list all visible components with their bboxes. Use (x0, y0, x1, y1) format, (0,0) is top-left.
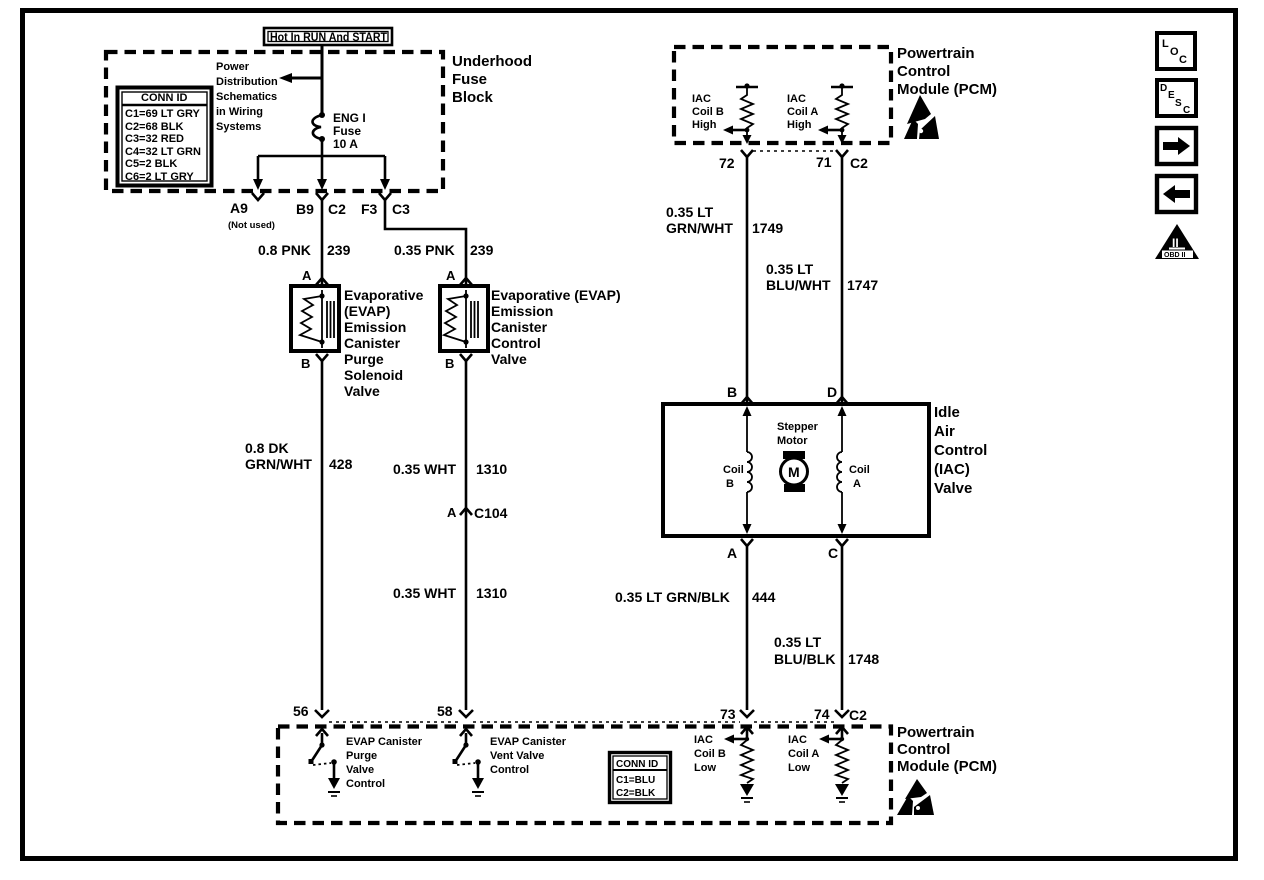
svg-text:F3: F3 (361, 201, 378, 217)
svg-text:Schematics: Schematics (216, 91, 277, 103)
svg-text:B: B (445, 356, 454, 371)
svg-text:Module (PCM): Module (PCM) (897, 81, 997, 98)
wire C3 to control valve pin A (385, 200, 466, 284)
svg-text:A: A (727, 545, 737, 561)
svg-text:B: B (301, 356, 310, 371)
svg-text:0.35 LT: 0.35 LT (766, 261, 814, 277)
svg-text:C3=32 RED: C3=32 RED (125, 133, 184, 145)
driver IAC Coil A Low (pin 74) (788, 727, 849, 802)
svg-text:Powertrain: Powertrain (897, 724, 975, 741)
svg-text:C104: C104 (474, 505, 508, 521)
svg-text:Idle: Idle (934, 404, 960, 421)
svg-text:239: 239 (470, 242, 494, 258)
svg-text:Evaporative (EVAP): Evaporative (EVAP) (491, 287, 621, 303)
icon LOC (1157, 33, 1195, 69)
svg-text:C: C (1179, 54, 1187, 66)
wire label 0.8 DK GRN/WHT 428 (245, 440, 353, 472)
CONN ID table (fuse block) (118, 88, 212, 186)
icon forward arrow (1157, 128, 1196, 164)
svg-text:ENG I: ENG I (333, 111, 366, 125)
svg-text:High: High (692, 119, 717, 131)
svg-text:O: O (1170, 46, 1179, 58)
svg-text:IAC: IAC (692, 93, 711, 105)
pin A purge arrow (302, 268, 328, 285)
wire IAC C to PCM 74 (841, 546, 844, 710)
svg-text:Coil B: Coil B (692, 106, 724, 118)
svg-text:C6=2 LT GRY: C6=2 LT GRY (125, 171, 194, 183)
svg-text:CONN ID: CONN ID (616, 759, 658, 770)
svg-text:GRN/WHT: GRN/WHT (666, 220, 733, 236)
ESD symbol top (904, 95, 939, 139)
svg-text:Control: Control (346, 778, 385, 790)
feed bus wire (258, 155, 385, 158)
svg-text:BLU/BLK: BLU/BLK (774, 651, 835, 667)
svg-text:M: M (788, 464, 800, 480)
connector 58 (437, 703, 473, 719)
svg-text:(IAC): (IAC) (934, 461, 970, 478)
connector B9 C2 (296, 193, 346, 217)
svg-text:C: C (1183, 105, 1190, 116)
svg-text:Power: Power (216, 61, 250, 73)
driver IAC Coil B High (692, 83, 758, 144)
svg-text:10 A: 10 A (333, 137, 358, 151)
svg-text:Motor: Motor (777, 435, 808, 447)
svg-text:C1=69 LT GRY: C1=69 LT GRY (125, 108, 201, 120)
svg-text:Canister: Canister (491, 319, 548, 335)
svg-text:A: A (853, 478, 861, 490)
connector C1/C2 dotted link bottom (329, 721, 835, 723)
svg-text:C5=2 BLK: C5=2 BLK (125, 158, 177, 170)
svg-text:0.35 WHT: 0.35 WHT (393, 461, 456, 477)
svg-text:GRN/WHT: GRN/WHT (245, 456, 312, 472)
svg-text:L: L (1162, 38, 1169, 50)
pin A IAC connector (727, 539, 753, 561)
svg-text:Purge: Purge (344, 351, 384, 367)
icon OBD II triangle (1155, 224, 1199, 259)
svg-text:B9: B9 (296, 201, 314, 217)
wire label 0.35 PNK 239 (394, 242, 494, 258)
svg-text:1749: 1749 (752, 220, 783, 236)
svg-text:Coil A: Coil A (787, 106, 818, 118)
driver IAC Coil B Low (pin 73) (694, 727, 754, 802)
svg-text:0.8 DK: 0.8 DK (245, 440, 289, 456)
svg-text:CONN ID: CONN ID (141, 92, 188, 104)
svg-text:Valve: Valve (934, 480, 972, 497)
coil A wire with up/down arrows (837, 406, 870, 534)
svg-text:Purge: Purge (346, 750, 377, 762)
svg-text:Valve: Valve (344, 383, 380, 399)
connector A C104 (447, 505, 508, 521)
pin C IAC connector (828, 539, 848, 561)
svg-text:BLU/WHT: BLU/WHT (766, 277, 831, 293)
svg-text:Powertrain: Powertrain (897, 45, 975, 62)
svg-text:Evaporative: Evaporative (344, 287, 424, 303)
svg-text:444: 444 (752, 589, 776, 605)
wire label 0.35 WHT 1310 upper (393, 461, 507, 477)
svg-text:Hot In RUN And START: Hot In RUN And START (270, 30, 388, 44)
IAC valve box (663, 404, 987, 536)
connector 71 C2 (816, 150, 868, 171)
svg-text:OBD II: OBD II (1164, 252, 1185, 259)
wire from Hot label to fuse (321, 45, 324, 114)
power distribution reference arrow (216, 61, 322, 133)
node Hot In RUN And START (264, 28, 392, 45)
svg-text:Underhood: Underhood (452, 53, 532, 70)
svg-text:E: E (1168, 90, 1175, 101)
wire IAC A to PCM 73 (746, 546, 749, 710)
svg-text:A9: A9 (230, 200, 248, 216)
wire drop F3 (380, 156, 390, 190)
svg-text:58: 58 (437, 703, 453, 719)
coil B wire with up/down arrows (723, 406, 752, 534)
svg-text:Coil A: Coil A (788, 748, 819, 760)
svg-text:Distribution: Distribution (216, 76, 278, 88)
svg-text:0.8 PNK: 0.8 PNK (258, 242, 311, 258)
svg-text:1310: 1310 (476, 461, 507, 477)
svg-text:Low: Low (694, 762, 716, 774)
svg-text:(EVAP): (EVAP) (344, 303, 390, 319)
svg-text:72: 72 (719, 155, 735, 171)
svg-text:Emission: Emission (344, 319, 406, 335)
svg-text:73: 73 (720, 706, 736, 722)
pin B control connector (445, 354, 472, 371)
underhood fuse block box (106, 52, 532, 191)
wire label 0.35 LT BLU/WHT 1747 (766, 261, 878, 293)
svg-text:Control: Control (897, 741, 950, 758)
svg-text:56: 56 (293, 703, 309, 719)
wire label 0.35 LT GRN/WHT 1749 (666, 204, 783, 236)
driver switch EVAP purge (pin 56) (309, 729, 423, 796)
svg-text:C3: C3 (392, 201, 410, 217)
svg-text:0.35 LT GRN/BLK: 0.35 LT GRN/BLK (615, 589, 730, 605)
connector 74 C2 (814, 706, 867, 723)
wire label 0.35 LT GRN/BLK 444 (615, 589, 776, 605)
PCM bottom box (278, 724, 997, 823)
svg-text:A: A (302, 268, 312, 283)
svg-text:EVAP Canister: EVAP Canister (346, 736, 423, 748)
wire label 0.35 LT BLU/BLK 1748 (774, 634, 879, 667)
wire fuse to feed bus (321, 139, 324, 156)
svg-text:C4=32 LT GRN: C4=32 LT GRN (125, 146, 201, 158)
ESD symbol bottom (897, 779, 934, 815)
connector 56 (293, 703, 329, 719)
svg-text:239: 239 (327, 242, 351, 258)
pin D IAC arrow (827, 384, 848, 404)
svg-text:Low: Low (788, 762, 810, 774)
wire control B to C104 (465, 361, 468, 515)
wire drop A9 (253, 156, 263, 190)
pin B IAC arrow (727, 384, 753, 404)
svg-text:Control: Control (491, 335, 541, 351)
svg-text:Canister: Canister (344, 335, 401, 351)
svg-text:C2=68 BLK: C2=68 BLK (125, 121, 183, 133)
CONN ID table (PCM) (610, 753, 671, 803)
svg-text:IAC: IAC (787, 93, 806, 105)
svg-text:Module (PCM): Module (PCM) (897, 758, 997, 775)
svg-text:S: S (1175, 98, 1182, 109)
svg-text:D: D (827, 384, 837, 400)
wire B9 to purge valve pin A (321, 200, 324, 284)
svg-text:0.35 LT: 0.35 LT (666, 204, 714, 220)
svg-text:C2: C2 (850, 155, 868, 171)
PCM top box (674, 45, 997, 143)
wire purge B to PCM pin 56 (321, 361, 324, 710)
svg-text:Coil B: Coil B (694, 748, 726, 760)
svg-text:Stepper: Stepper (777, 421, 819, 433)
svg-text:1747: 1747 (847, 277, 878, 293)
wire 72 to IAC pin B (746, 157, 749, 403)
connector A9 (not used) (228, 193, 275, 231)
wire drop B9 (317, 156, 327, 190)
svg-text:0.35 WHT: 0.35 WHT (393, 585, 456, 601)
connector C2 dotted link (753, 150, 836, 152)
fuse ENG I 10 A (313, 111, 366, 151)
svg-text:B: B (727, 384, 737, 400)
svg-text:Emission: Emission (491, 303, 553, 319)
svg-text:Valve: Valve (491, 351, 527, 367)
svg-text:Air: Air (934, 423, 955, 440)
pin A control arrow (446, 268, 472, 285)
svg-text:Vent Valve: Vent Valve (490, 750, 544, 762)
svg-text:1310: 1310 (476, 585, 507, 601)
connector 73 (720, 706, 754, 722)
svg-text:71: 71 (816, 154, 832, 170)
svg-text:0.35 LT: 0.35 LT (774, 634, 822, 650)
icon DESC (1157, 80, 1196, 116)
stepper motor (777, 421, 819, 492)
wire label 0.8 PNK 239 (258, 242, 351, 258)
svg-text:A: A (447, 505, 457, 520)
svg-text:0.35 PNK: 0.35 PNK (394, 242, 455, 258)
svg-text:C1=BLU: C1=BLU (616, 775, 655, 786)
svg-text:(Not used): (Not used) (228, 220, 275, 231)
svg-text:Solenoid: Solenoid (344, 367, 403, 383)
svg-text:in Wiring: in Wiring (216, 106, 263, 118)
connector 72 (719, 150, 753, 171)
driver switch EVAP vent (pin 58) (453, 729, 567, 796)
wire 71 to IAC pin D (841, 157, 844, 403)
icon back arrow (1157, 176, 1196, 212)
svg-text:IAC: IAC (694, 734, 713, 746)
svg-text:428: 428 (329, 456, 353, 472)
svg-text:Coil: Coil (723, 464, 744, 476)
svg-text:Valve: Valve (346, 764, 374, 776)
svg-text:C: C (828, 545, 838, 561)
svg-text:D: D (1160, 83, 1167, 94)
svg-text:Systems: Systems (216, 121, 261, 133)
svg-text:A: A (446, 268, 456, 283)
svg-text:EVAP Canister: EVAP Canister (490, 736, 567, 748)
svg-text:Fuse: Fuse (333, 124, 361, 138)
svg-text:C2: C2 (328, 201, 346, 217)
svg-text:Coil: Coil (849, 464, 870, 476)
wire label 0.35 WHT 1310 lower (393, 585, 507, 601)
svg-text:Control: Control (897, 63, 950, 80)
svg-text:IAC: IAC (788, 734, 807, 746)
EVAP control valve (440, 286, 621, 367)
svg-text:Control: Control (934, 442, 987, 459)
svg-text:C2=BLK: C2=BLK (616, 788, 656, 799)
svg-text:74: 74 (814, 706, 830, 722)
connector F3 C3 (361, 193, 410, 217)
svg-text:Block: Block (452, 89, 494, 106)
svg-text:Fuse: Fuse (452, 71, 487, 88)
EVAP purge solenoid valve (291, 286, 424, 399)
svg-text:Control: Control (490, 764, 529, 776)
svg-text:C2: C2 (849, 707, 867, 723)
svg-text:1748: 1748 (848, 651, 879, 667)
driver IAC Coil A High (787, 83, 853, 144)
wire C104 to PCM pin 58 (465, 515, 468, 710)
svg-text:B: B (726, 478, 734, 490)
pin B purge connector (301, 354, 328, 371)
svg-text:High: High (787, 119, 812, 131)
